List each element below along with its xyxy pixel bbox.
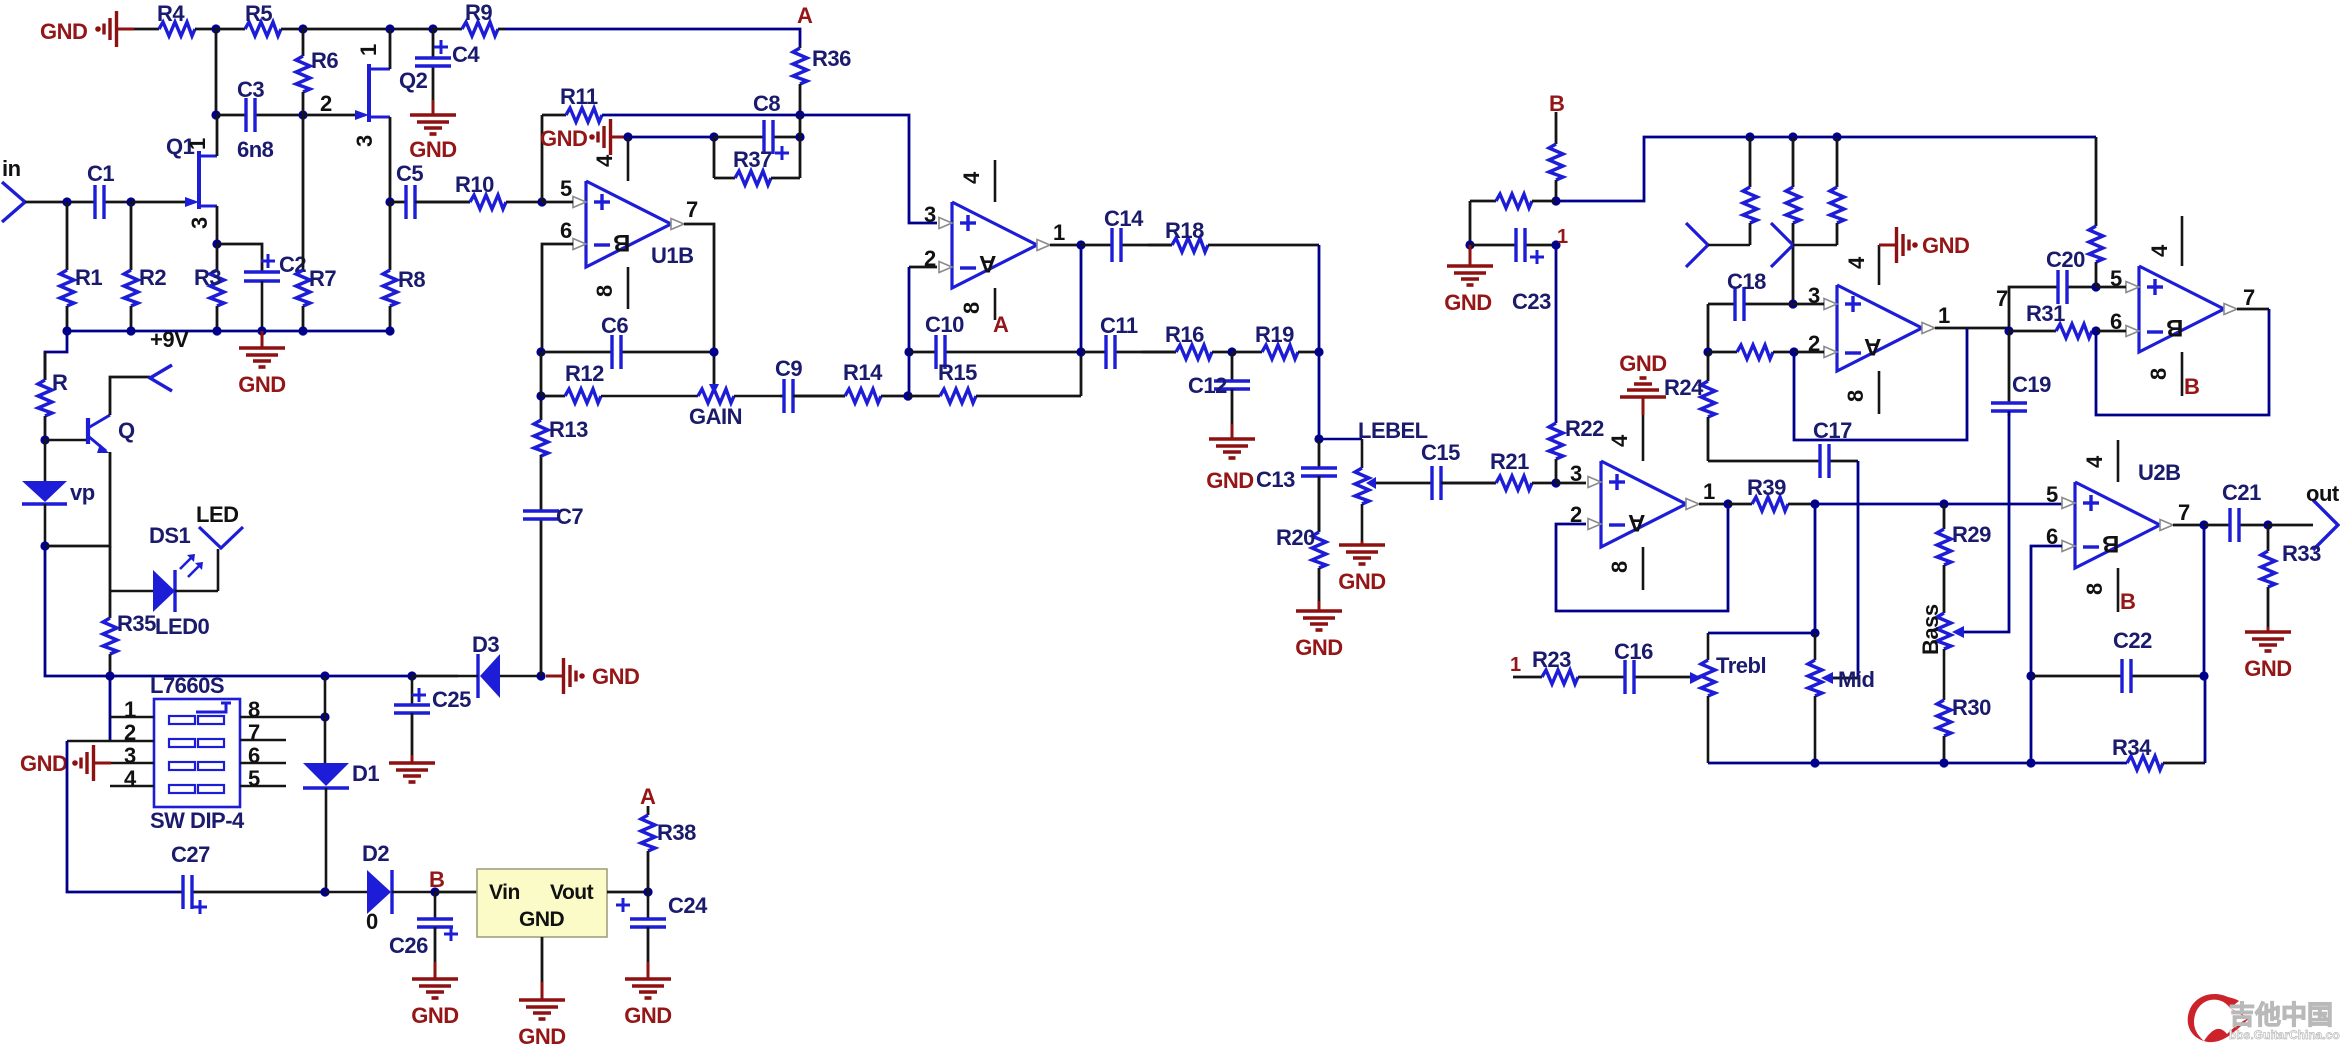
input port in [2, 156, 25, 222]
svg-text:7: 7 [1996, 286, 2008, 311]
junction C27 / D1 bottom [320, 887, 329, 896]
svg-text:Trebl: Trebl [1716, 653, 1766, 678]
svg-text:B: B [2184, 374, 2199, 399]
svg-text:D3: D3 [472, 632, 499, 657]
svg-text:6: 6 [248, 743, 260, 768]
junction R14/R15 [903, 391, 912, 400]
resistor R2 [124, 202, 166, 331]
svg-text:R1: R1 [75, 265, 102, 290]
junction bus R7 [298, 326, 307, 335]
wire vp node down to bottom bus [45, 546, 110, 676]
svg-text:R36: R36 [812, 46, 851, 71]
node A above R38 [640, 784, 656, 809]
junction B column / bus [1551, 196, 1560, 205]
capacitor C14 [1081, 206, 1172, 262]
C3 value 6n8 [237, 137, 274, 162]
resistor R34 [2112, 735, 2205, 770]
svg-text:R31: R31 [2026, 301, 2065, 326]
U2B pin 4 stub [2082, 440, 2118, 482]
junction A2 pin2 [1789, 347, 1798, 356]
resistor R30 [1937, 695, 1991, 763]
svg-text:1: 1 [1053, 220, 1065, 245]
svg-text:D1: D1 [352, 761, 379, 786]
junction pin5/R11 column [537, 197, 546, 206]
capacitor C25 (polarized) [394, 676, 471, 713]
svg-text:L7660S: L7660S [150, 673, 224, 698]
svg-text:C20: C20 [2046, 247, 2085, 272]
svg-text:R3: R3 [194, 265, 221, 290]
svg-text:R11: R11 [560, 84, 598, 109]
svg-text:4: 4 [1844, 256, 1869, 269]
svg-text:R2: R2 [139, 265, 166, 290]
op-amp B2 [2126, 266, 2237, 352]
watermark logo bbs.GuitarChina.com [2188, 994, 2340, 1042]
wire A1 pin2 loop column [909, 266, 937, 269]
power ground near pin4 U1B [589, 119, 628, 155]
wire out node down to C22 [2203, 525, 2206, 676]
capacitor C22 [2031, 628, 2204, 693]
svg-text:GND: GND [411, 1003, 458, 1028]
U2B pin 7 number [2178, 500, 2190, 525]
A2 pin 3 number [1808, 283, 1820, 308]
resistor R39 [1728, 475, 1815, 511]
resistor R6 [296, 29, 338, 115]
node B bottom [429, 867, 444, 892]
wire bus right corner up [2204, 676, 2207, 763]
resistor unlabeled left of B column [1470, 194, 1556, 208]
ground below C23 left [1444, 245, 1493, 315]
diode vp [22, 440, 95, 546]
op-amp A2 [1824, 285, 1935, 371]
U2A pin 3 number [1570, 461, 1582, 486]
junction bus R1 [62, 326, 71, 335]
junction C8 left / R37 [709, 132, 718, 141]
capacitor C2 (polarized) [244, 252, 306, 331]
svg-text:8: 8 [2146, 368, 2171, 380]
wire R11 to pin5 column [541, 115, 544, 202]
DIP pin 8 [240, 697, 325, 722]
svg-text:C13: C13 [1256, 467, 1295, 492]
B2 pin 5 number [2110, 266, 2122, 291]
svg-text:7: 7 [686, 197, 698, 222]
DIP pin 7 [240, 720, 286, 745]
wire U1B pin5 lead [542, 201, 573, 204]
svg-text:1: 1 [185, 138, 210, 150]
resistor above B2 pin5 [2089, 137, 2103, 287]
power ground GND at DIP pin3 [72, 745, 111, 781]
resistor R12 [541, 361, 604, 403]
bus to D3 [412, 675, 458, 678]
junction bus R8 [385, 326, 394, 335]
junction C20 right / pin5 [2091, 282, 2100, 291]
svg-text:GND: GND [1619, 351, 1666, 376]
svg-text:C7: C7 [556, 504, 583, 529]
svg-text:C12: C12 [1188, 373, 1227, 398]
resistor R9 [433, 0, 505, 36]
svg-text:GAIN: GAIN [689, 404, 742, 429]
junction R bottom / Q base / vp [40, 435, 49, 444]
wire to regulator Vin [435, 891, 477, 894]
ground below C25 [389, 713, 435, 782]
wire Vout to C24 node [607, 891, 648, 894]
junction bus Mid [1810, 758, 1819, 767]
wire C18 left corner down [1707, 304, 1710, 352]
svg-text:7: 7 [2243, 285, 2255, 310]
junction C4 top [428, 24, 437, 33]
op-amp A1 [939, 202, 1050, 288]
resistor R20 [1276, 476, 1326, 601]
svg-text:Q: Q [118, 418, 135, 443]
junction bus D1 [320, 671, 329, 680]
capacitor C20 [2046, 247, 2096, 304]
svg-text:C27: C27 [171, 842, 210, 867]
GND label DIP [20, 751, 67, 776]
svg-text:GND: GND [40, 19, 87, 44]
svg-text:5: 5 [560, 176, 572, 201]
junction bus x1793 [1788, 132, 1797, 141]
junction R4-R5 [211, 24, 220, 33]
resistor unlabeled below B [1549, 112, 1563, 201]
capacitor C16 [1614, 639, 1690, 694]
svg-text:Vout: Vout [550, 881, 594, 904]
LED emission arrows [180, 554, 203, 577]
GND label U1B [540, 126, 587, 151]
svg-text:B: B [2120, 589, 2135, 614]
svg-text:D2: D2 [362, 841, 389, 866]
wire B2 pin5 lead [2096, 286, 2126, 289]
+9V label [150, 327, 189, 352]
svg-text:8: 8 [1607, 561, 1632, 573]
U2B pin 6 number [2046, 524, 2058, 549]
svg-text:C22: C22 [2113, 628, 2152, 653]
bus to D1 column [110, 675, 412, 678]
junction C22 left [2026, 671, 2035, 680]
junction bus R3 [212, 326, 221, 335]
A1 pin 2 number [924, 246, 936, 271]
capacitor C6 [541, 313, 714, 369]
svg-text:R18: R18 [1165, 218, 1204, 243]
power ground GND top-left [95, 11, 134, 47]
wire in to C1 [25, 201, 95, 204]
junction R31 right / pin6 [2091, 326, 2100, 335]
svg-text:R19: R19 [1255, 322, 1294, 347]
wire Q2 drain to top rail [389, 29, 392, 69]
svg-text:1: 1 [1938, 303, 1950, 328]
svg-text:SW DIP-4: SW DIP-4 [150, 808, 245, 833]
node A top [797, 3, 813, 28]
resistor R22 [1549, 416, 1604, 483]
svg-text:0: 0 [366, 909, 378, 934]
A1 pin 3 number [924, 202, 936, 227]
svg-text:1: 1 [124, 697, 136, 722]
wire U2A pin3 lead [1556, 482, 1586, 485]
svg-text:R7: R7 [309, 266, 336, 291]
A2 pin 1 number [1938, 303, 1950, 328]
resistor unlabeled to A2 pin2 [1708, 345, 1794, 359]
resistor R29 [1937, 504, 1991, 613]
svg-text:吉他中国: 吉他中国 [2229, 1000, 2333, 1030]
Q1 pin 1 number [185, 138, 210, 150]
svg-text:R24: R24 [1664, 375, 1704, 400]
svg-text:3: 3 [124, 743, 136, 768]
resistor R5 [216, 1, 303, 36]
wire R39 to U2B pin5 [1815, 503, 2062, 506]
capacitor C27 (polarized) [171, 842, 325, 914]
svg-text:GND: GND [20, 751, 67, 776]
LED DS1 [110, 549, 218, 612]
wire gnd node to C8 left [628, 136, 714, 139]
wiper chevron 2 [1771, 223, 1837, 267]
wire C17 right to Mid wiper [1833, 461, 1858, 678]
svg-text:C21: C21 [2222, 480, 2261, 505]
U2A pin 8 stub [1607, 547, 1643, 590]
svg-text:2: 2 [320, 91, 332, 116]
svg-text:vp: vp [70, 480, 95, 505]
svg-text:U1B: U1B [651, 243, 694, 268]
svg-text:7: 7 [2178, 500, 2190, 525]
junction R16/R19/C12 [1227, 347, 1236, 356]
svg-text:R38: R38 [657, 820, 696, 845]
U1B label [651, 243, 694, 268]
svg-text:3: 3 [187, 217, 212, 229]
svg-text:GND: GND [540, 126, 587, 151]
power ground right of D3 [546, 658, 639, 694]
junction C23 right [1551, 240, 1560, 249]
resistor R38 [641, 806, 696, 892]
junction bus C2 [257, 326, 266, 335]
wire U2B pin6 loop [2031, 546, 2062, 676]
wire C20 corner [2009, 287, 2058, 331]
junction U2A out / R39 [1723, 499, 1732, 508]
svg-text:C25: C25 [432, 687, 471, 712]
voltage regulator (Vin Vout GND) [477, 869, 607, 937]
B2 pin 6 number [2110, 309, 2122, 334]
wire R19 node down [1318, 352, 1321, 439]
capacitor C3 [216, 77, 303, 132]
svg-text:7: 7 [248, 720, 260, 745]
svg-text:C18: C18 [1727, 269, 1766, 294]
capacitor C10 [909, 312, 1081, 369]
node A below A1 [993, 312, 1009, 337]
svg-text:C5: C5 [396, 161, 423, 186]
junction R29 top [1939, 499, 1948, 508]
resistor R11 [542, 84, 602, 122]
resistor R35 [103, 611, 156, 676]
capacitor C19 [1991, 331, 2051, 416]
Q2 pin 3 number [352, 135, 377, 147]
B2 pin 4 stub [2147, 216, 2182, 266]
svg-text:GND: GND [519, 908, 565, 931]
LED label [196, 502, 239, 527]
resistor R8 [383, 202, 425, 331]
svg-text:3: 3 [924, 202, 936, 227]
wire R9 to node A corner [505, 29, 800, 45]
svg-text:R12: R12 [565, 361, 604, 386]
svg-text:LEBEL: LEBEL [1358, 418, 1428, 443]
capacitor C13 [1256, 439, 1337, 532]
wire pin2 net down-left to C27 [67, 741, 179, 892]
op-amp U2B [2062, 482, 2173, 568]
junction U2B out / C21 [2199, 520, 2208, 529]
A1 pin 1 number [1053, 220, 1065, 245]
wire R36 node down to C8 node [799, 115, 802, 178]
junction C3 right / R6 / R7 [298, 110, 307, 119]
svg-text:R10: R10 [455, 172, 494, 197]
transistor Q (NPN) [45, 415, 110, 453]
junction pin4 node [623, 132, 632, 141]
svg-text:C4: C4 [452, 42, 480, 67]
capacitor C11 [1081, 313, 1176, 369]
svg-text:A: A [979, 250, 996, 277]
wire B2 feedback loop [2096, 309, 2269, 415]
wire source node to C2 [217, 244, 262, 270]
A2 pin 2 number [1808, 331, 1820, 356]
pin 2 label Q2 gate [320, 91, 332, 116]
svg-text:R16: R16 [1165, 322, 1204, 347]
junction bus R30 [1939, 758, 1948, 767]
svg-text:4: 4 [1607, 434, 1632, 447]
potentiometer GAIN [601, 384, 780, 429]
transistor Q1 (JFET) [185, 151, 217, 209]
svg-text:GND: GND [2244, 656, 2291, 681]
power ground at A2 pin4 [1879, 227, 1969, 263]
wire Q collector to +9V arrow [110, 377, 150, 415]
svg-text:GND: GND [1338, 569, 1385, 594]
svg-text:5: 5 [248, 766, 260, 791]
resistor R37 [714, 147, 800, 185]
potentiometer Bass [1918, 604, 1951, 700]
node B at B2 pin8 [2184, 374, 2199, 399]
B2 pin 7 number [2243, 285, 2255, 310]
junction bus C25 [407, 671, 416, 680]
capacitor C23 (polarized) [1470, 228, 1556, 314]
ground below C26 [411, 927, 458, 1028]
svg-text:R8: R8 [398, 267, 425, 292]
wire B2 output [2237, 308, 2269, 311]
U2B pin 5 number [2046, 482, 2058, 507]
junction C3 left [211, 110, 220, 119]
tone bottom bus [1708, 762, 2127, 765]
DIP pin 5 [240, 766, 286, 791]
op-amp U2A [1588, 461, 1699, 547]
wire +9V bus down-left step [45, 331, 67, 380]
A1 pin 8 stub [959, 288, 995, 320]
svg-text:Q2: Q2 [399, 68, 428, 93]
diode D2 [325, 841, 435, 914]
wire U2A output [1699, 503, 1728, 506]
wire R11 rail to A1 pin3 [602, 115, 937, 223]
LED0 label [155, 614, 210, 639]
capacitor C26 (polarized) [389, 892, 458, 958]
ground below C24 [624, 927, 671, 1028]
wire R39 node down to tone rail [1814, 504, 1817, 633]
wire pin2 column down [908, 267, 911, 396]
svg-text:bbs.GuitarChina.com: bbs.GuitarChina.com [2229, 1028, 2340, 1042]
junction DIP pin8 / D1 column [320, 712, 329, 721]
wire C19 down to Bass wiper [1964, 411, 2009, 632]
node B at U2B pin8 [2120, 589, 2135, 614]
resistor R10 [415, 172, 542, 209]
resistor R3 [194, 244, 224, 331]
DIP pin 2 [67, 720, 154, 745]
junction C6 left [536, 347, 545, 356]
wire Q2 source down to C5 node [389, 117, 392, 202]
wire to out connector [2268, 524, 2313, 527]
C23 pin 1 number [1557, 226, 1568, 248]
capacitor C4 [415, 29, 480, 100]
output port out [2306, 481, 2340, 550]
junction vp / emitter rail [40, 541, 49, 550]
junction R12 left [536, 391, 545, 400]
capacitor C8 (polarized) [714, 91, 800, 160]
U2A pin 1 number [1703, 479, 1715, 504]
svg-text:A: A [797, 3, 813, 28]
switch SW DIP-4 body [154, 699, 240, 807]
junction bottom bus R35 [105, 671, 114, 680]
resistor R36 [793, 45, 851, 115]
wire C6-R12 column [540, 352, 543, 396]
Q1 label [166, 134, 195, 159]
wire B node to top-right bus [1556, 137, 2096, 201]
svg-text:R22: R22 [1565, 416, 1604, 441]
svg-text:R4: R4 [157, 1, 185, 26]
junction C10 left [904, 347, 913, 356]
wire out column down [1080, 245, 1083, 352]
svg-text:GND: GND [1922, 233, 1969, 258]
svg-text:Vin: Vin [489, 881, 520, 904]
U2A pin 2 number [1570, 502, 1582, 527]
svg-text:GND: GND [592, 664, 639, 689]
resistor R14 [793, 360, 908, 403]
svg-text:6: 6 [560, 218, 572, 243]
wire A2 feedback loop [1794, 328, 1967, 440]
wire R18 corner down [1318, 245, 1321, 352]
svg-text:4: 4 [124, 766, 137, 791]
svg-text:R14: R14 [843, 360, 883, 385]
svg-text:+9V: +9V [150, 327, 189, 352]
ground below +9V bus (C2) [238, 331, 285, 397]
junction R15 left [903, 391, 912, 400]
junction Q1 source / R3 / C2 [212, 239, 221, 248]
U1B pin 4 stub [592, 137, 628, 181]
capacitor C15 [1376, 440, 1496, 500]
svg-text:R5: R5 [245, 1, 272, 26]
svg-text:A: A [993, 312, 1009, 337]
wire emitter down and across [45, 452, 110, 546]
svg-text:C9: C9 [775, 356, 802, 381]
A2 pin 8 stub [1843, 371, 1879, 414]
U2B label [2138, 460, 2181, 485]
GND label top-left [40, 19, 87, 44]
resistor R21 [1441, 449, 1556, 490]
junction C6 right / wiper [709, 347, 718, 356]
capacitor C1 [87, 161, 131, 219]
junction Q2 drain top [385, 24, 394, 33]
resistor R7 [296, 115, 336, 331]
svg-text:R13: R13 [549, 417, 588, 442]
svg-text:R30: R30 [1952, 695, 1991, 720]
wire emitter node down to LED anode [109, 546, 112, 618]
potentiometer Mid [1808, 633, 1874, 763]
svg-text:DS1: DS1 [149, 523, 191, 548]
resistor R16 [1142, 322, 1232, 359]
+9V connector arrow [150, 365, 172, 391]
svg-text:6n8: 6n8 [237, 137, 274, 162]
ground below R20 [1295, 601, 1342, 660]
junction R24 top [1703, 347, 1712, 356]
resistor R4 [134, 1, 216, 36]
wire left resistor corner down [1469, 201, 1472, 245]
